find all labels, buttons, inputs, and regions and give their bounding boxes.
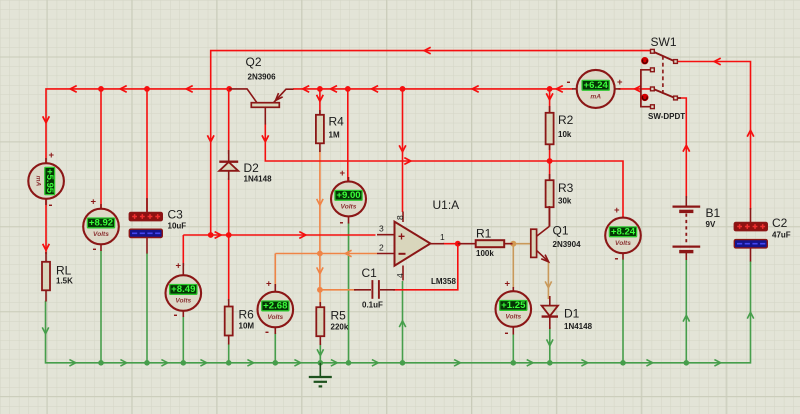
svg-text:+5.95: +5.95	[44, 169, 55, 194]
svg-text:R6: R6	[239, 308, 255, 322]
svg-text:+: +	[91, 196, 97, 207]
svg-text:+1.25: +1.25	[501, 300, 526, 311]
svg-text:+2.68: +2.68	[263, 301, 288, 312]
svg-text:2N3904: 2N3904	[553, 240, 582, 249]
svg-text:+: +	[266, 278, 272, 289]
svg-text:SW1: SW1	[651, 35, 677, 49]
svg-text:1: 1	[440, 232, 445, 242]
svg-text:-: -	[93, 241, 97, 255]
svg-text:+6.24: +6.24	[584, 80, 609, 91]
svg-text:R5: R5	[331, 309, 347, 323]
svg-text:1.5K: 1.5K	[56, 276, 73, 285]
svg-text:R1: R1	[476, 227, 492, 241]
svg-text:Q1: Q1	[553, 223, 569, 237]
svg-text:9V: 9V	[706, 220, 716, 229]
svg-text:1N4148: 1N4148	[564, 322, 593, 331]
svg-text:2: 2	[379, 243, 384, 253]
svg-text:+: +	[614, 205, 620, 216]
svg-text:+8.24: +8.24	[611, 227, 636, 238]
svg-text:D1: D1	[564, 306, 580, 320]
svg-text:+9.00: +9.00	[336, 190, 360, 201]
svg-text:+: +	[398, 230, 405, 244]
svg-text:+8.92: +8.92	[89, 218, 113, 229]
svg-text:+: +	[340, 168, 346, 179]
svg-text:C2: C2	[772, 216, 788, 230]
svg-text:2N3906: 2N3906	[248, 72, 277, 81]
svg-text:+: +	[176, 260, 182, 271]
svg-text:D2: D2	[244, 161, 260, 175]
svg-text:10k: 10k	[558, 130, 572, 139]
svg-text:Volts: Volts	[93, 231, 109, 238]
svg-text:Volts: Volts	[341, 204, 357, 211]
svg-text:LM358: LM358	[431, 277, 456, 286]
svg-text:B1: B1	[706, 206, 721, 220]
svg-text:30k: 30k	[558, 197, 572, 206]
svg-text:RL: RL	[56, 263, 72, 277]
svg-text:47uF: 47uF	[772, 230, 791, 239]
svg-text:Volts: Volts	[267, 314, 283, 321]
svg-text:-: -	[615, 251, 619, 265]
svg-text:10M: 10M	[239, 322, 255, 331]
svg-text:R4: R4	[329, 115, 345, 129]
svg-text:-: -	[567, 75, 571, 89]
svg-text:4: 4	[395, 273, 405, 278]
svg-text:-: -	[174, 308, 178, 322]
svg-text:Volts: Volts	[505, 314, 521, 321]
svg-text:SW-DPDT: SW-DPDT	[648, 112, 685, 121]
svg-text:Volts: Volts	[615, 240, 631, 247]
svg-text:Q2: Q2	[246, 55, 262, 69]
svg-text:+: +	[49, 150, 55, 161]
svg-text:+: +	[617, 77, 623, 88]
svg-text:1M: 1M	[329, 131, 340, 140]
svg-text:R2: R2	[558, 113, 574, 127]
svg-text:C1: C1	[362, 266, 378, 280]
svg-text:mA: mA	[34, 176, 41, 187]
svg-text:8: 8	[395, 215, 405, 220]
svg-text:3: 3	[379, 224, 384, 234]
svg-text:10uF: 10uF	[168, 221, 187, 230]
svg-text:0.1uF: 0.1uF	[362, 300, 383, 309]
svg-text:1N4148: 1N4148	[244, 175, 273, 184]
svg-text:220k: 220k	[331, 323, 349, 332]
svg-text:Volts: Volts	[175, 298, 191, 305]
svg-text:-: -	[505, 326, 509, 340]
svg-text:+: +	[505, 279, 511, 290]
svg-text:+8.49: +8.49	[171, 284, 195, 295]
svg-text:U1:A: U1:A	[433, 198, 460, 212]
svg-text:-: -	[265, 325, 269, 339]
svg-text:mA: mA	[590, 94, 601, 101]
svg-text:-: -	[49, 197, 53, 211]
svg-text:-: -	[340, 215, 344, 229]
svg-text:C3: C3	[168, 207, 184, 221]
svg-text:R3: R3	[558, 181, 574, 195]
svg-text:100k: 100k	[476, 249, 494, 258]
